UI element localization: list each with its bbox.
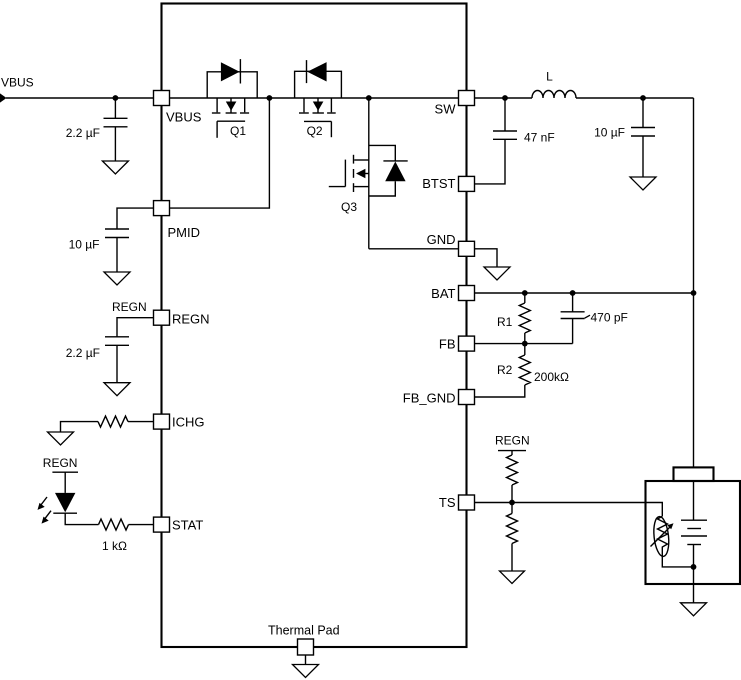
- inductor L: [532, 91, 576, 98]
- wire resistor to STAT pin: [129, 524, 154, 526]
- wire TS rail to thermistor: [475, 503, 663, 517]
- node PMID tap (Q1-Q2 midpoint): [267, 95, 273, 101]
- thermistor arrow: [651, 527, 671, 547]
- ground (10uF): [630, 177, 656, 190]
- svg-text:FB: FB: [439, 337, 456, 352]
- ground (battery): [681, 603, 707, 616]
- pin PMID: [154, 201, 170, 216]
- wire C_regn to ground: [116, 345, 118, 382]
- svg-text:L: L: [546, 70, 553, 84]
- wire VBUS pin across to SW pin: [170, 97, 459, 99]
- svg-text:R2: R2: [497, 363, 513, 377]
- wire tap to 47nF: [504, 98, 506, 131]
- wire TS node to RT2: [511, 503, 513, 514]
- svg-text:47 nF: 47 nF: [524, 131, 555, 145]
- pin ICHG: [154, 414, 170, 429]
- thermistor ellipse: [652, 516, 671, 557]
- svg-text:2.2 µF: 2.2 µF: [66, 346, 100, 360]
- ground (thermal pad): [293, 665, 319, 678]
- pin Thermal Pad: [298, 639, 314, 655]
- wire 470pF branch: [572, 293, 574, 312]
- Q3 body diode top connector: [369, 145, 396, 161]
- transistor Q1 MOSFET: [212, 98, 249, 138]
- svg-text:ICHG: ICHG: [172, 415, 205, 430]
- ground (PMID cap): [104, 272, 130, 285]
- wire tab to cell: [693, 481, 695, 520]
- Q3 body diode triangle: [385, 162, 405, 182]
- Q3 body diode cathode bar: [383, 160, 407, 162]
- node FB divider: [522, 341, 528, 347]
- resistor 1 kOhm: [99, 519, 129, 530]
- node BAT to battery rail: [691, 290, 697, 296]
- node 470pF top: [570, 290, 576, 296]
- svg-text:VBUS: VBUS: [1, 76, 34, 90]
- node TS divider: [509, 500, 515, 506]
- Q3 channel arrow: [356, 169, 365, 178]
- svg-text:REGN: REGN: [43, 456, 78, 470]
- battery cell plates: [681, 520, 707, 544]
- ground (TS divider): [500, 571, 525, 584]
- node 47nF tap: [502, 95, 508, 101]
- battery pack box: [646, 481, 741, 584]
- transistor Q1 body diode loop: [207, 72, 257, 98]
- svg-text:GND: GND: [427, 232, 456, 247]
- wire C_vbus to ground: [114, 127, 116, 161]
- wire BAT to R1: [524, 293, 526, 303]
- REGN rail bar (TS): [498, 450, 526, 452]
- pin GND: [459, 241, 475, 256]
- svg-text:VBUS: VBUS: [166, 110, 202, 125]
- diode cathode bar Q1: [239, 59, 241, 83]
- wire inductor to battery rail: [576, 97, 694, 99]
- wire thermistor to battery negative: [662, 550, 693, 567]
- svg-text:10 µF: 10 µF: [594, 126, 625, 140]
- pin BTST: [459, 176, 475, 191]
- wire GND pin to Q3 source: [369, 248, 459, 250]
- wire resistor to ground: [61, 422, 99, 432]
- svg-text:Q3: Q3: [341, 200, 357, 214]
- LED light arrow 2: [45, 511, 52, 520]
- svg-text:TS: TS: [439, 495, 456, 510]
- IC U1 body outline: [162, 4, 467, 648]
- node battery negative: [691, 564, 697, 570]
- capacitor 47nF: [493, 131, 517, 139]
- transistor Q3 MOSFET: [329, 155, 369, 192]
- leader line 470pF: [585, 315, 590, 318]
- wire cell to bottom node: [693, 545, 695, 603]
- diode of Q1 (anode left): [221, 62, 240, 81]
- pin VBUS: [154, 91, 170, 106]
- capacitor 10uF (SW): [631, 128, 655, 137]
- wire FB rail: [475, 343, 573, 345]
- svg-text:FB_GND: FB_GND: [403, 391, 456, 406]
- resistor R_ichg: [98, 416, 128, 427]
- wire BAT rail: [475, 292, 694, 294]
- battery pack terminal tab: [674, 467, 714, 481]
- LED cathode bar: [53, 512, 77, 514]
- wire FB to R2: [524, 344, 526, 355]
- wire battery rail vertical: [693, 98, 695, 467]
- svg-text:REGN: REGN: [495, 434, 530, 448]
- wire 470pF to FB wire: [572, 319, 574, 344]
- ground (REGN cap): [104, 383, 130, 396]
- svg-text:Thermal Pad: Thermal Pad: [268, 624, 340, 638]
- pin STAT: [154, 517, 170, 532]
- thermistor zigzag: [658, 516, 668, 550]
- resistor R2: [519, 355, 530, 385]
- wire rail to RT1: [511, 451, 513, 455]
- wire tap to 10uF: [642, 98, 644, 128]
- ground (GND pin): [484, 267, 510, 280]
- svg-text:2.2 µF: 2.2 µF: [66, 126, 100, 140]
- svg-text:BAT: BAT: [431, 286, 455, 301]
- resistor RT2 (lower TS divider): [507, 514, 518, 544]
- ground (VBUS cap): [102, 161, 128, 174]
- node VBUS cap tap: [113, 95, 119, 101]
- VBUS input arrow: [0, 93, 7, 102]
- svg-text:BTST: BTST: [422, 176, 455, 191]
- wire VBUS input to VBUS pin: [6, 97, 154, 99]
- wire RT1 to TS node: [511, 485, 513, 503]
- wire 10uF to ground: [642, 136, 644, 177]
- LED light arrow 1: [41, 497, 48, 506]
- svg-text:REGN: REGN: [112, 300, 147, 314]
- wire PMID net: [170, 98, 270, 208]
- capacitor 10uF (PMID): [105, 229, 129, 238]
- ground (ICHG): [48, 432, 74, 445]
- wire dot to C_vbus: [114, 98, 116, 118]
- pin FB: [459, 336, 475, 351]
- transistor Q2 body diode loop: [295, 71, 342, 98]
- pin FB_GND: [459, 390, 475, 405]
- svg-text:1 kΩ: 1 kΩ: [102, 539, 127, 553]
- Q3 body diode bottom connector: [369, 181, 396, 196]
- resistor RT1 (upper TS divider): [507, 455, 518, 485]
- Q2 body arrow: [313, 102, 324, 111]
- wire PMID pin to C_pmid: [117, 208, 154, 229]
- svg-text:R1: R1: [497, 315, 513, 329]
- diode cathode bar Q2: [306, 60, 308, 83]
- node R1 top: [522, 290, 528, 296]
- svg-text:PMID: PMID: [168, 225, 201, 240]
- node 10uF tap: [640, 95, 646, 101]
- wire LED to resistor 1k: [65, 513, 98, 524]
- capacitor 470pF: [561, 312, 585, 319]
- REGN rail bar (LED): [52, 471, 78, 473]
- pin BAT: [459, 286, 475, 301]
- wire R2 to FB_GND pin: [475, 385, 525, 397]
- wire REGN pin to C_regn: [117, 318, 154, 337]
- svg-text:200kΩ: 200kΩ: [534, 370, 569, 384]
- LED D1: [55, 493, 75, 512]
- wire C_pmid to ground: [116, 238, 118, 273]
- node Q3 drain tap: [366, 95, 372, 101]
- svg-text:Q2: Q2: [307, 124, 323, 138]
- svg-text:10 µF: 10 µF: [69, 238, 100, 252]
- wire thermal pad to ground: [305, 655, 307, 665]
- transistor Q2 MOSFET: [299, 98, 336, 137]
- wire rail to LED: [64, 472, 66, 493]
- wire SW pin to inductor: [475, 97, 533, 99]
- resistor R1: [519, 303, 530, 333]
- Q1 body arrow: [226, 102, 237, 111]
- wire R1 to FB node: [524, 333, 526, 344]
- wire RT2 to ground: [511, 544, 513, 572]
- svg-text:STAT: STAT: [172, 518, 203, 533]
- capacitor 2.2uF (REGN): [105, 337, 129, 346]
- svg-text:SW: SW: [435, 102, 457, 117]
- svg-text:Q1: Q1: [230, 124, 246, 138]
- pin SW: [459, 91, 475, 106]
- transistor Q3 drain wire: [368, 98, 370, 249]
- wire GND pin to ground: [475, 249, 498, 267]
- diode of Q2 (anode right): [307, 62, 326, 81]
- wire 47nF to BTST pin: [475, 139, 506, 184]
- svg-text:470 pF: 470 pF: [591, 311, 628, 325]
- svg-text:REGN: REGN: [172, 312, 210, 327]
- pin REGN: [154, 310, 170, 325]
- capacitor 2.2uF (VBUS): [104, 118, 128, 127]
- wire ICHG pin to resistor: [128, 421, 154, 423]
- pin TS: [459, 495, 475, 510]
